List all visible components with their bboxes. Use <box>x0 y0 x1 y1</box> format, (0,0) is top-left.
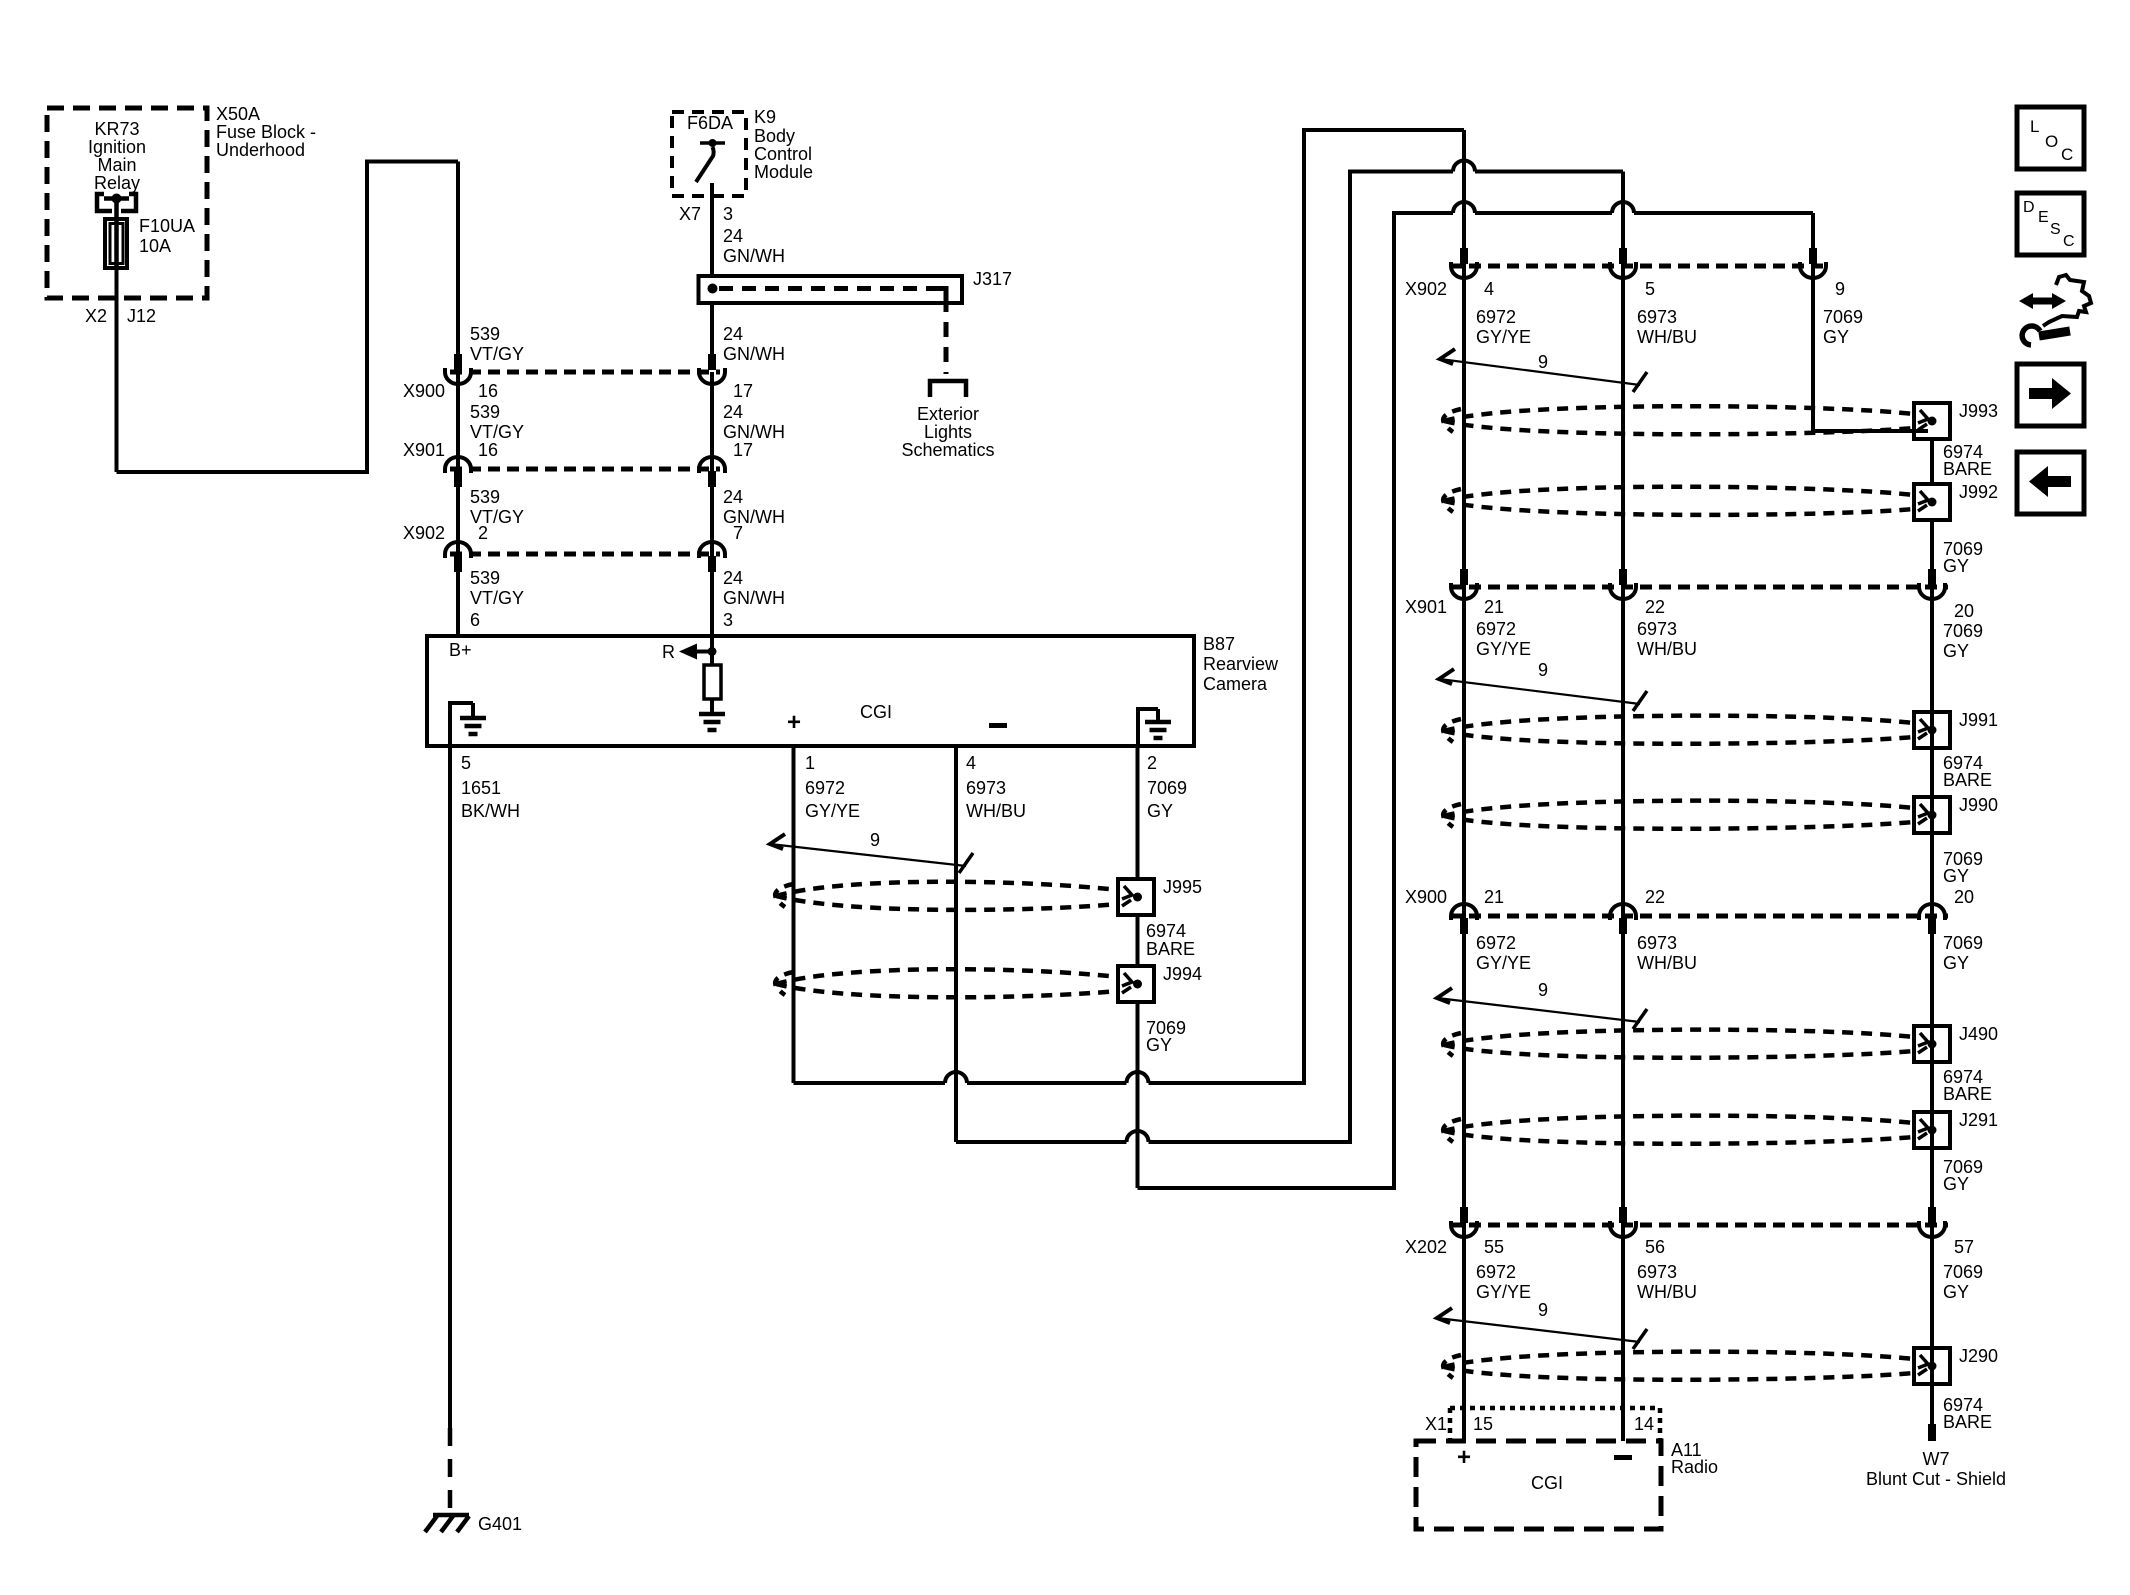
twisted shield pair into J993 <box>1444 406 1914 421</box>
off-page bracket exterior lights <box>930 381 966 397</box>
wire 7069 top horizontal <box>1392 211 1453 215</box>
splice J995 <box>1118 879 1154 915</box>
svg-text:4: 4 <box>1484 279 1494 299</box>
blunt cut W7 terminal tick <box>1928 1424 1936 1441</box>
splice J317 internal bus <box>708 284 718 294</box>
svg-text:6972: 6972 <box>805 778 845 798</box>
wire 6974 BARE shield chain down to W7 <box>1930 439 1934 484</box>
svg-text:E: E <box>2038 209 2049 226</box>
svg-text:VT/GY: VT/GY <box>470 588 524 608</box>
svg-text:6: 6 <box>470 610 480 630</box>
wire 7069 GY vertical upper right column <box>1811 213 1815 431</box>
svg-text:6974: 6974 <box>1146 921 1186 941</box>
svg-text:GY: GY <box>1943 1282 1969 1302</box>
svg-text:21: 21 <box>1484 597 1504 617</box>
svg-text:7069: 7069 <box>1943 621 1983 641</box>
svg-text:GN/WH: GN/WH <box>723 344 785 364</box>
svg-text:VT/GY: VT/GY <box>470 344 524 364</box>
connector X1 dotted outline <box>1450 1406 1660 1411</box>
svg-text:J317: J317 <box>973 269 1012 289</box>
twisted shield pair into J991 <box>1444 716 1914 731</box>
in-line connector row X202 right <box>1450 1223 1948 1228</box>
svg-text:KR73: KR73 <box>94 119 139 139</box>
svg-text:J991: J991 <box>1959 710 1998 730</box>
shield note 9 (X900 section) <box>1437 988 1452 1003</box>
svg-text:7069: 7069 <box>1943 1262 1983 1282</box>
svg-text:16: 16 <box>478 381 498 401</box>
svg-text:D: D <box>2023 199 2035 216</box>
splice pack J317 box <box>699 276 963 303</box>
svg-text:55: 55 <box>1484 1237 1504 1257</box>
svg-text:BARE: BARE <box>1943 459 1992 479</box>
svg-text:X202: X202 <box>1405 1237 1447 1257</box>
svg-text:X2: X2 <box>85 306 107 326</box>
svg-text:Rearview: Rearview <box>1203 654 1279 674</box>
svg-text:J990: J990 <box>1959 795 1998 815</box>
svg-text:WH/BU: WH/BU <box>1637 1282 1697 1302</box>
svg-text:J994: J994 <box>1163 964 1202 984</box>
ground G401 symbol <box>433 1513 469 1518</box>
fuse F10UA 10A <box>105 219 127 268</box>
shield note 9 (X901 section) <box>1439 669 1454 684</box>
svg-text:G401: G401 <box>478 1514 522 1534</box>
svg-text:6972: 6972 <box>1476 933 1516 953</box>
wire horizontal top <box>365 160 458 164</box>
svg-text:6972: 6972 <box>1476 1262 1516 1282</box>
ground internal left (pin 5) <box>448 703 452 746</box>
svg-text:C: C <box>2061 145 2073 164</box>
svg-text:GY: GY <box>1943 556 1969 576</box>
twisted shield pair into J290 <box>1444 1352 1914 1367</box>
svg-text:X901: X901 <box>403 440 445 460</box>
svg-text:GY: GY <box>1943 1174 1969 1194</box>
svg-text:6973: 6973 <box>1637 1262 1677 1282</box>
wire 539 VT/GY X901 to X902 <box>456 469 460 554</box>
svg-text:17: 17 <box>733 440 753 460</box>
wire 7069 riser up to top <box>1392 211 1396 1190</box>
wire 6972 riser up to top <box>1302 128 1306 1085</box>
svg-text:J995: J995 <box>1163 877 1202 897</box>
svg-text:X901: X901 <box>1405 597 1447 617</box>
twisted shield pair into J990 <box>1444 801 1914 816</box>
svg-text:Main: Main <box>97 155 136 175</box>
shield note 9 (X202 section) <box>1437 1308 1452 1323</box>
svg-text:2: 2 <box>478 523 488 543</box>
wire 6973 WH/BU vertical right column <box>1621 172 1625 1442</box>
svg-text:3: 3 <box>723 610 733 630</box>
svg-text:Schematics: Schematics <box>901 440 994 460</box>
svg-text:J992: J992 <box>1959 482 1998 502</box>
splice J990 <box>1914 797 1950 833</box>
component B87 Rearview Camera box <box>427 636 1194 746</box>
svg-text:GY/YE: GY/YE <box>1476 639 1531 659</box>
svg-text:20: 20 <box>1954 601 1974 621</box>
in-line connector row X901 left <box>450 467 720 472</box>
shield note 9 (X902 section) <box>1440 349 1455 364</box>
svg-text:6972: 6972 <box>1476 619 1516 639</box>
svg-text:539: 539 <box>470 568 500 588</box>
svg-text:F10UA: F10UA <box>139 216 195 236</box>
svg-text:CGI: CGI <box>1531 1473 1563 1493</box>
svg-text:BK/WH: BK/WH <box>461 801 520 821</box>
svg-text:GN/WH: GN/WH <box>723 422 785 442</box>
svg-text:X900: X900 <box>1405 887 1447 907</box>
svg-text:6973: 6973 <box>1637 619 1677 639</box>
svg-text:GY: GY <box>1146 1035 1172 1055</box>
svg-text:Module: Module <box>754 162 813 182</box>
svg-text:16: 16 <box>478 440 498 460</box>
label - terminal <box>989 723 1007 728</box>
icon replace-part (arrows and wrench) <box>2026 298 2058 305</box>
resistor internal pull <box>710 652 714 666</box>
twisted shield pair into J291 <box>1444 1116 1914 1131</box>
wire 539 VT/GY X900 to X901 <box>456 372 460 469</box>
twisted shield pair into J992 <box>1444 487 1914 501</box>
relay KR73 contact symbol <box>97 194 112 211</box>
svg-text:GY/YE: GY/YE <box>1476 1282 1531 1302</box>
twisted shield pair into J490 <box>1444 1030 1914 1045</box>
wire 6973 WH/BU camera pin 4 down and right <box>954 746 958 1142</box>
svg-text:CGI: CGI <box>860 702 892 722</box>
svg-text:24: 24 <box>723 324 743 344</box>
svg-text:57: 57 <box>1954 1237 1974 1257</box>
svg-text:24: 24 <box>723 568 743 588</box>
twisted shield pair into J995 <box>776 882 1118 896</box>
svg-text:+: + <box>1457 1444 1471 1471</box>
svg-text:21: 21 <box>1484 887 1504 907</box>
wire 6973 top horizontal <box>1348 170 1453 174</box>
wire 24 GN/WH from BCM X7 pin 3 <box>710 183 714 276</box>
wire riser up <box>365 160 369 475</box>
svg-text:1: 1 <box>805 753 815 773</box>
in-line connector row X900 left <box>450 370 720 375</box>
svg-text:7069: 7069 <box>1823 307 1863 327</box>
svg-text:9: 9 <box>1538 980 1548 1000</box>
wire fuse to X2 J12 and down <box>115 268 119 472</box>
svg-text:6973: 6973 <box>1637 307 1677 327</box>
ground internal (resistor) <box>699 712 725 717</box>
svg-text:9: 9 <box>1538 352 1548 372</box>
svg-text:F6DA: F6DA <box>687 113 733 133</box>
svg-text:B+: B+ <box>449 640 472 660</box>
wire 7069 GY into splice J993 <box>1813 429 1928 433</box>
svg-text:9: 9 <box>1538 1300 1548 1320</box>
svg-text:VT/GY: VT/GY <box>470 422 524 442</box>
fuse block X50A dashed outline <box>47 108 207 298</box>
svg-text:C: C <box>2063 233 2075 250</box>
wire 6973 riser up to top <box>1348 170 1352 1145</box>
wire 539 VT/GY X902 to camera pin 6 <box>456 554 460 636</box>
svg-text:WH/BU: WH/BU <box>1637 327 1697 347</box>
svg-text:WH/BU: WH/BU <box>1637 953 1697 973</box>
svg-text:3: 3 <box>723 204 733 224</box>
svg-text:9: 9 <box>1835 279 1845 299</box>
splice J994 <box>1118 966 1154 1002</box>
svg-text:17: 17 <box>733 381 753 401</box>
svg-text:2: 2 <box>1147 753 1157 773</box>
svg-text:539: 539 <box>470 402 500 422</box>
svg-text:539: 539 <box>470 487 500 507</box>
icon box back arrow <box>2017 452 2084 514</box>
svg-text:GY/YE: GY/YE <box>805 801 860 821</box>
svg-text:X1: X1 <box>1425 1414 1447 1434</box>
wire 539 VT/GY down to X900 <box>456 162 460 355</box>
in-line connector row X900 right <box>1450 914 1948 919</box>
wire 24 GN/WH X902 to camera pin 3 <box>710 554 714 636</box>
svg-text:Lights: Lights <box>924 422 972 442</box>
component A11 Radio dashed box <box>1416 1441 1661 1529</box>
svg-text:K9: K9 <box>754 107 776 127</box>
wire relay through fuse <box>114 199 119 271</box>
svg-text:Blunt Cut - Shield: Blunt Cut - Shield <box>1866 1469 2006 1489</box>
svg-text:24: 24 <box>723 402 743 422</box>
svg-text:+: + <box>787 709 801 736</box>
svg-text:GN/WH: GN/WH <box>723 588 785 608</box>
svg-text:22: 22 <box>1645 597 1665 617</box>
svg-text:5: 5 <box>461 753 471 773</box>
svg-text:Underhood: Underhood <box>216 140 305 160</box>
splice J291 <box>1914 1112 1950 1148</box>
svg-text:J993: J993 <box>1959 401 1998 421</box>
svg-text:J290: J290 <box>1959 1346 1998 1366</box>
ground internal right (pin 2) <box>1136 709 1140 746</box>
svg-text:GY: GY <box>1943 953 1969 973</box>
svg-text:BARE: BARE <box>1943 1084 1992 1104</box>
svg-text:14: 14 <box>1634 1414 1654 1434</box>
svg-text:9: 9 <box>870 830 880 850</box>
svg-text:GN/WH: GN/WH <box>723 246 785 266</box>
svg-text:BARE: BARE <box>1146 939 1195 959</box>
icon box LOC <box>2017 107 2084 169</box>
in-line connector row X902 right <box>1450 264 1830 269</box>
svg-text:J490: J490 <box>1959 1024 1998 1044</box>
svg-text:X50A: X50A <box>216 104 260 124</box>
svg-text:WH/BU: WH/BU <box>966 801 1026 821</box>
shield note 9 (camera section) <box>770 834 785 849</box>
svg-text:WH/BU: WH/BU <box>1637 639 1697 659</box>
svg-text:6972: 6972 <box>1476 307 1516 327</box>
svg-text:Body: Body <box>754 126 795 146</box>
svg-text:GN/WH: GN/WH <box>723 507 785 527</box>
svg-text:Camera: Camera <box>1203 674 1268 694</box>
in-line connector row X901 right <box>1450 585 1948 590</box>
svg-text:GY/YE: GY/YE <box>1476 327 1531 347</box>
svg-text:24: 24 <box>723 226 743 246</box>
svg-text:24: 24 <box>723 487 743 507</box>
svg-text:Relay: Relay <box>94 173 140 193</box>
svg-text:6973: 6973 <box>1637 933 1677 953</box>
svg-text:GY: GY <box>1943 641 1969 661</box>
wire 7069 GY camera pin 2 down through splices <box>1136 746 1140 879</box>
svg-text:X902: X902 <box>1405 279 1447 299</box>
svg-text:7069: 7069 <box>1943 933 1983 953</box>
wire 24 GN/WH X900-X901 <box>710 372 714 469</box>
svg-text:22: 22 <box>1645 887 1665 907</box>
icon box DESC <box>2017 193 2084 255</box>
twisted shield pair into J994 <box>776 969 1118 984</box>
svg-text:S: S <box>2050 221 2061 238</box>
svg-text:B87: B87 <box>1203 634 1235 654</box>
svg-text:O: O <box>2045 132 2058 151</box>
in-line connector row X902 left <box>450 552 720 557</box>
splice J991 <box>1914 712 1950 748</box>
svg-text:9: 9 <box>1538 660 1548 680</box>
module K9 BCM driver F6DA dashed outline <box>672 112 746 196</box>
svg-text:7069: 7069 <box>1147 778 1187 798</box>
svg-text:X902: X902 <box>403 523 445 543</box>
svg-text:J291: J291 <box>1959 1110 1998 1130</box>
svg-text:J12: J12 <box>127 306 156 326</box>
svg-text:20: 20 <box>1954 887 1974 907</box>
svg-text:Exterior: Exterior <box>917 404 979 424</box>
svg-text:Control: Control <box>754 144 812 164</box>
wire 6972 GY/YE camera pin 1 down and right <box>792 746 796 1083</box>
svg-text:10A: 10A <box>139 236 171 256</box>
svg-text:GY/YE: GY/YE <box>1476 953 1531 973</box>
svg-text:15: 15 <box>1473 1414 1493 1434</box>
driver output symbol <box>700 141 725 145</box>
svg-text:Radio: Radio <box>1671 1457 1718 1477</box>
svg-text:W7: W7 <box>1923 1449 1950 1469</box>
splice J290 <box>1914 1348 1950 1384</box>
svg-text:GY: GY <box>1823 327 1849 347</box>
wire 24 GN/WH J317 to X900 <box>710 303 714 354</box>
svg-text:GY: GY <box>1943 866 1969 886</box>
wire horizontal to riser <box>117 470 368 474</box>
svg-text:X7: X7 <box>679 204 701 224</box>
wire 6972 top horizontal <box>1302 128 1464 132</box>
splice J992 <box>1914 484 1950 520</box>
svg-text:R: R <box>662 642 675 662</box>
svg-text:5: 5 <box>1645 279 1655 299</box>
svg-text:BARE: BARE <box>1943 770 1992 790</box>
svg-text:L: L <box>2030 117 2039 136</box>
splice J993 <box>1914 403 1950 439</box>
svg-text:6973: 6973 <box>966 778 1006 798</box>
svg-text:56: 56 <box>1645 1237 1665 1257</box>
svg-text:539: 539 <box>470 324 500 344</box>
svg-text:BARE: BARE <box>1943 1412 1992 1432</box>
svg-text:1651: 1651 <box>461 778 501 798</box>
wire 24 GN/WH X901-X902 <box>710 469 714 554</box>
dashed wire J317 to exterior lights <box>944 297 949 374</box>
svg-text:Fuse Block -: Fuse Block - <box>216 122 316 142</box>
icon box forward arrow <box>2017 364 2084 426</box>
svg-text:GY: GY <box>1147 801 1173 821</box>
svg-text:4: 4 <box>966 753 976 773</box>
svg-text:Ignition: Ignition <box>88 137 146 157</box>
wire 6972 GY/YE vertical right column <box>1462 130 1466 1441</box>
label - terminal radio <box>1614 1455 1632 1460</box>
splice J490 <box>1914 1026 1950 1062</box>
svg-text:X900: X900 <box>403 381 445 401</box>
wire 1651 BK/WH to ground <box>448 746 452 1428</box>
